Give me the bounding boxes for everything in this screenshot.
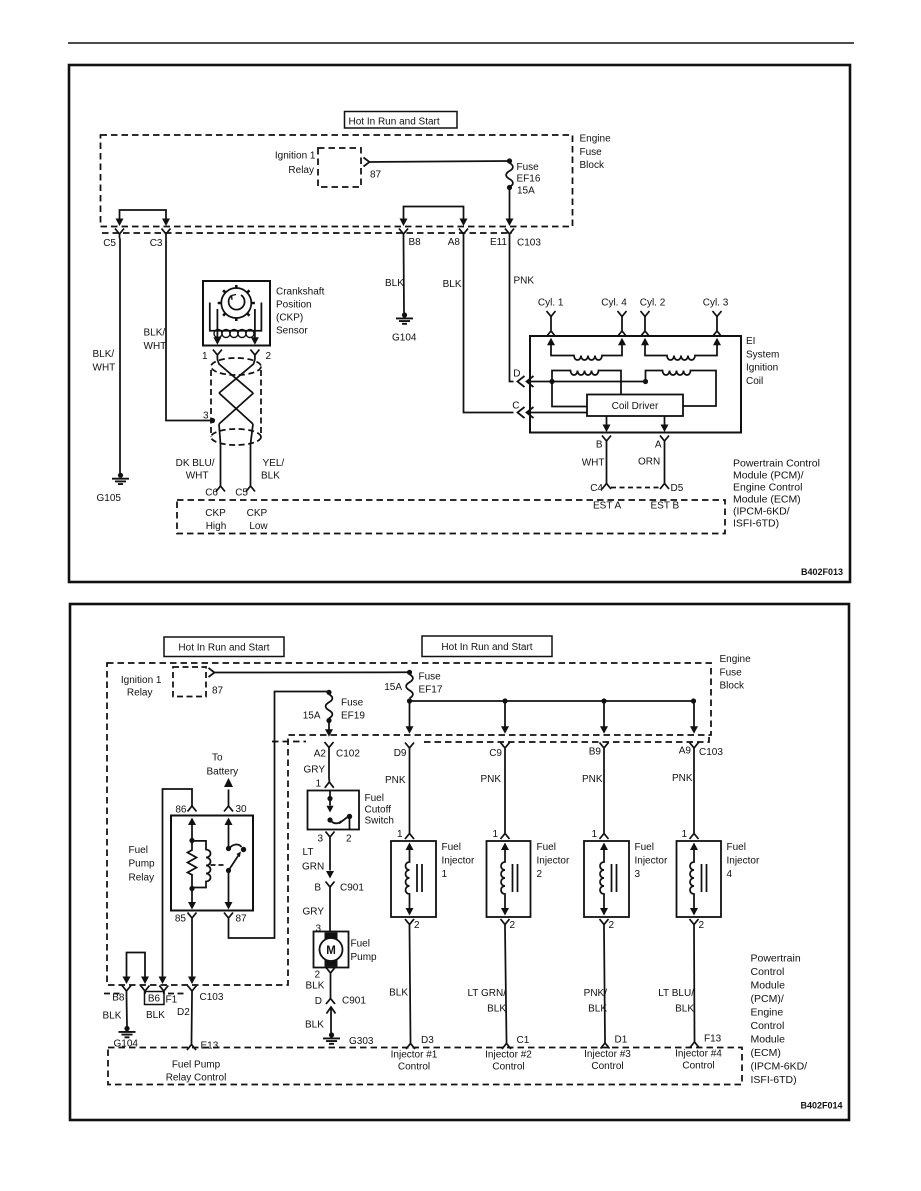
terminal D1 [601, 1040, 610, 1049]
spark tower Cyl 1 [547, 311, 556, 337]
wire pump to D C901 (BLK) [330, 977, 332, 995]
svg-text:PNK: PNK [582, 774, 603, 785]
svg-text:86: 86 [175, 805, 187, 816]
spark tower Cyl 4 [618, 311, 627, 337]
drop to A9 [693, 701, 695, 727]
svg-text:BLK: BLK [305, 1020, 324, 1031]
svg-text:Relay: Relay [127, 688, 153, 699]
svg-text:LT: LT [303, 847, 314, 858]
injector 2 pin 2 [501, 919, 510, 929]
svg-text:C3: C3 [150, 238, 163, 249]
terminal B8 [399, 229, 408, 239]
svg-text:Relay: Relay [129, 873, 155, 884]
terminal C103/D2 [188, 986, 197, 996]
svg-text:87: 87 [370, 170, 382, 181]
svg-text:LT BLU/: LT BLU/ [658, 988, 694, 999]
svg-text:A9: A9 [679, 746, 692, 757]
CKP pin 2 [250, 350, 259, 360]
svg-text:E11: E11 [490, 237, 507, 248]
coil driver output B [606, 416, 608, 426]
svg-text:2: 2 [699, 920, 705, 931]
svg-text:2: 2 [510, 920, 516, 931]
wire injector 3 to D1 (PNK/BLK) [604, 929, 605, 1040]
svg-text:C103: C103 [699, 747, 723, 758]
terminal C1 [502, 1040, 511, 1049]
svg-text:2: 2 [537, 869, 543, 880]
wire to E13 [191, 996, 194, 1042]
svg-text:C6: C6 [205, 488, 218, 499]
label box: Hot In Run and Start (left) [164, 637, 284, 657]
coil driver output A [664, 416, 666, 426]
fuel pump [314, 932, 349, 968]
wire to C6 (DK BLU/WHT) [220, 444, 222, 484]
svg-text:1: 1 [442, 869, 448, 880]
wire B9 to injector 3 (PNK) [603, 753, 605, 831]
svg-text:Module (ECM): Module (ECM) [733, 494, 801, 506]
svg-text:C103: C103 [200, 992, 224, 1003]
svg-text:A: A [655, 440, 662, 451]
fuse EF16 [507, 158, 512, 163]
terminal D3 [406, 1040, 415, 1049]
svg-text:Control: Control [682, 1061, 714, 1072]
svg-text:Control: Control [398, 1062, 430, 1073]
fuel injector 3 [584, 841, 629, 917]
pin 87 chevron and wire to fuse EF17 [209, 668, 410, 677]
svg-text:D5: D5 [671, 483, 684, 494]
drop to B9 [603, 701, 605, 727]
svg-text:Powertrain: Powertrain [751, 953, 801, 965]
svg-text:PNK: PNK [385, 775, 406, 786]
wire B8 to G104 (BLK) [126, 996, 129, 1027]
fuel injector 2 [487, 841, 531, 917]
svg-text:WHT: WHT [186, 471, 209, 482]
CKP pickup bracket [210, 303, 262, 331]
svg-text:EF17: EF17 [419, 685, 443, 696]
svg-text:87: 87 [236, 914, 248, 925]
svg-text:EI: EI [746, 336, 755, 347]
primary winding right [646, 371, 717, 407]
To Battery arrow [228, 790, 230, 806]
twisted pair wires [217, 360, 255, 445]
svg-text:2: 2 [346, 834, 352, 845]
svg-text:PNK: PNK [514, 276, 535, 287]
svg-text:G104: G104 [392, 333, 417, 344]
svg-text:Battery: Battery [207, 767, 239, 778]
PCM connector box (diagram 2) [108, 1048, 742, 1085]
svg-text:Fuse: Fuse [419, 672, 442, 683]
CKP pin 1 [213, 350, 222, 360]
terminal D9 [405, 743, 414, 753]
wire to C5 (YEL/BLK) [250, 444, 252, 484]
wire cutoff to B C901 (LT GRN) [329, 841, 331, 871]
svg-text:High: High [206, 521, 227, 532]
svg-text:D1: D1 [615, 1035, 628, 1046]
svg-text:Hot In Run and Start: Hot In Run and Start [349, 117, 440, 128]
svg-text:Injector #4: Injector #4 [675, 1049, 722, 1060]
terminal A9 [690, 743, 699, 753]
svg-text:Fuel: Fuel [365, 793, 384, 804]
svg-text:15A: 15A [303, 711, 321, 722]
svg-text:3: 3 [316, 924, 322, 935]
svg-text:Block: Block [720, 681, 745, 692]
CKP reluctor wheel [218, 285, 255, 321]
svg-text:System: System [746, 349, 779, 360]
injector 3 pin 2 [600, 919, 609, 929]
wire: EF16 to E11 [509, 188, 511, 220]
svg-text:Fuse: Fuse [580, 147, 603, 158]
svg-text:Hot In Run and Start: Hot In Run and Start [178, 643, 269, 654]
wire A to D5 (ORN) [664, 446, 666, 481]
injector 4 pin 2 [690, 919, 699, 929]
svg-text:G105: G105 [97, 493, 122, 504]
relay: Ignition 1 Relay (diagram 2) [173, 667, 206, 697]
wire A8 to coil terminal C (BLK) [464, 239, 514, 413]
relay switch branch [211, 818, 247, 910]
svg-text:EF19: EF19 [341, 711, 365, 722]
svg-text:To: To [212, 753, 223, 764]
svg-text:EST A: EST A [593, 501, 621, 512]
svg-text:PNK/: PNK/ [584, 988, 608, 999]
svg-text:1: 1 [397, 829, 403, 840]
engine fuse block outline (diagram 1) [101, 135, 573, 227]
terminal C4 [602, 481, 611, 490]
svg-text:(IPCM-6KD/: (IPCM-6KD/ [751, 1061, 808, 1073]
internal bus C5-C3 [120, 210, 167, 219]
fuel injector 1 [391, 841, 436, 917]
svg-text:C5: C5 [235, 488, 248, 499]
top rule [68, 42, 854, 44]
terminal F1 [159, 986, 168, 995]
svg-text:Coil Driver: Coil Driver [612, 401, 659, 412]
svg-text:(PCM)/: (PCM)/ [751, 993, 784, 1005]
svg-text:BLK: BLK [487, 1004, 506, 1015]
svg-text:Cyl. 4: Cyl. 4 [601, 298, 627, 309]
coil driver box [587, 395, 683, 417]
svg-text:WHT: WHT [144, 341, 167, 352]
label box: Hot In Run and Start (right) [422, 636, 552, 657]
wire: D dot to coil driver [552, 382, 587, 407]
connector row C103 (diagram 2) [424, 736, 709, 742]
terminal E11 [505, 229, 514, 239]
svg-text:BLK: BLK [306, 981, 325, 992]
svg-text:15A: 15A [517, 186, 535, 197]
svg-text:Injector: Injector [537, 856, 570, 867]
internal bus B8-A8 [404, 207, 464, 220]
svg-text:LT GRN/: LT GRN/ [467, 988, 506, 999]
injector 2 pin 1 [501, 831, 510, 840]
svg-text:Hot In Run and Start: Hot In Run and Start [441, 642, 532, 653]
svg-text:15A: 15A [384, 682, 402, 693]
svg-text:CKP: CKP [247, 508, 268, 519]
svg-text:A2: A2 [314, 749, 327, 760]
injector 4 pin 1 [690, 831, 699, 840]
svg-text:B9: B9 [589, 747, 602, 758]
terminal B6 [141, 986, 150, 995]
label box: Hot In Run and Start (diagram 1) [345, 112, 458, 129]
svg-text:Cutoff: Cutoff [365, 804, 392, 815]
secondary winding Cyl 2-3 [645, 345, 717, 361]
ground G303 [323, 1032, 340, 1043]
frame: diagram 2 border [70, 604, 849, 1120]
svg-text:D: D [513, 369, 520, 380]
svg-text:3: 3 [317, 834, 323, 845]
svg-text:1: 1 [202, 351, 208, 362]
fuel pump pin 2 terminal [326, 968, 335, 978]
ground G105 [112, 473, 129, 484]
svg-text:C4: C4 [590, 483, 603, 494]
svg-text:B8: B8 [112, 993, 125, 1004]
svg-text:Fuel: Fuel [351, 939, 370, 950]
PCM connector box (diagram 1) [177, 500, 725, 534]
ground wire G303 (BLK) [327, 1007, 336, 1034]
svg-text:Block: Block [580, 160, 605, 171]
svg-text:2: 2 [414, 920, 420, 931]
injector feed bus [410, 700, 695, 702]
svg-text:Relay Control: Relay Control [166, 1073, 227, 1084]
node: pin 3 junction [210, 418, 215, 423]
svg-text:Injector: Injector [442, 856, 475, 867]
svg-text:M: M [326, 945, 336, 957]
wire D9 to injector 1 (PNK) [409, 753, 411, 831]
spark tower Cyl 2 [641, 311, 650, 337]
svg-text:D3: D3 [421, 1035, 434, 1046]
svg-text:Control: Control [751, 1020, 785, 1032]
svg-text:D2: D2 [177, 1007, 190, 1018]
twisted pair shield [211, 358, 261, 445]
svg-text:WHT: WHT [93, 363, 116, 374]
svg-text:B: B [314, 883, 321, 894]
svg-text:Fuel Pump: Fuel Pump [172, 1060, 221, 1071]
svg-text:Fuel: Fuel [442, 842, 461, 853]
connector row C103 (diagram 1) [102, 232, 512, 234]
drop to D9 [409, 701, 411, 727]
wire C3 to CKP pin 3 (BLK/WHT) [166, 239, 211, 421]
svg-text:Sensor: Sensor [276, 326, 308, 337]
wire relay 85 down to C103 [191, 922, 193, 978]
pin 87 chevron and wire to fuse EF16 [364, 158, 510, 167]
svg-text:Module: Module [751, 1034, 786, 1046]
svg-text:Engine: Engine [580, 134, 612, 145]
svg-text:B8: B8 [409, 237, 422, 248]
drop to C9 [504, 701, 506, 727]
wire injector 2 to C1 (LT GRN/BLK) [505, 929, 507, 1041]
svg-text:BLK: BLK [675, 1004, 694, 1015]
fuel cutoff switch [308, 791, 360, 830]
connector row C102 dash [272, 741, 306, 743]
terminal B C901 [326, 882, 335, 892]
DIAGRAM 1 [101, 112, 573, 485]
engine fuse block outline (diagram 2) [107, 663, 711, 985]
svg-text:Fuse: Fuse [720, 667, 743, 678]
svg-text:Module (PCM)/: Module (PCM)/ [733, 470, 804, 482]
svg-text:Ignition: Ignition [746, 363, 778, 374]
terminal F13 [690, 1039, 699, 1048]
svg-text:1: 1 [492, 829, 498, 840]
svg-text:1: 1 [681, 829, 687, 840]
wire EF19 to A2 [328, 721, 330, 730]
svg-text:(IPCM-6KD/: (IPCM-6KD/ [733, 506, 790, 518]
dashed link C4-D5 [611, 487, 660, 489]
svg-text:BLK: BLK [146, 1010, 165, 1021]
svg-text:E13: E13 [201, 1041, 219, 1052]
svg-text:B6: B6 [148, 994, 161, 1005]
svg-text:Fuse: Fuse [341, 698, 364, 709]
injector 1 pin 2 [405, 919, 414, 929]
svg-text:Powertrain Control: Powertrain Control [733, 458, 820, 470]
svg-text:B402F014: B402F014 [800, 1101, 842, 1111]
ground G104 (diagram 2) [119, 1026, 136, 1037]
svg-text:A8: A8 [448, 237, 461, 248]
secondary winding Cyl 1-4 [551, 345, 622, 361]
wire E11 to coil terminal D (PNK) [510, 239, 514, 382]
svg-text:GRY: GRY [303, 907, 325, 918]
terminal A8 [459, 229, 468, 239]
svg-text:Ignition 1: Ignition 1 [121, 675, 162, 686]
relay pin 87 terminal [224, 913, 233, 922]
svg-text:B402F013: B402F013 [801, 567, 843, 577]
svg-text:87: 87 [212, 686, 224, 697]
svg-text:C: C [512, 401, 519, 412]
terminal C6 [216, 484, 225, 492]
svg-text:C103: C103 [517, 238, 541, 249]
wire C5 to G105 (BLK/WHT) [119, 239, 121, 474]
wire F1 to relay pin 86 [163, 789, 193, 977]
svg-text:Fuel: Fuel [635, 842, 654, 853]
svg-text:C5: C5 [103, 238, 116, 249]
relay pin 85 terminal [188, 913, 197, 922]
svg-text:Control: Control [492, 1062, 524, 1073]
wire B to C4 (WHT) [606, 446, 608, 481]
svg-text:Fuel: Fuel [537, 842, 556, 853]
svg-text:Injector #1: Injector #1 [391, 1050, 438, 1061]
relay pin 30 terminal [224, 806, 233, 812]
fuse EF17 [407, 670, 412, 675]
svg-text:Fuel: Fuel [727, 842, 746, 853]
svg-text:85: 85 [175, 914, 187, 925]
svg-text:Position: Position [276, 300, 312, 311]
svg-text:Fuse: Fuse [517, 162, 540, 173]
svg-text:Injector: Injector [727, 856, 760, 867]
svg-text:Cyl. 1: Cyl. 1 [538, 298, 564, 309]
svg-text:Pump: Pump [351, 952, 378, 963]
terminal B8 (diagram 2) [122, 986, 131, 996]
fuse EF19 [326, 690, 331, 695]
svg-text:Coil: Coil [746, 376, 763, 387]
primary winding left [552, 371, 621, 395]
svg-text:2: 2 [315, 970, 321, 981]
fuel pump relay box [171, 816, 253, 911]
svg-text:C901: C901 [342, 996, 366, 1007]
terminal C5 [115, 229, 124, 239]
svg-text:3: 3 [635, 869, 641, 880]
svg-text:Injector: Injector [635, 856, 668, 867]
wire injector 4 to F13 (LT BLU/BLK) [693, 929, 696, 1039]
svg-text:G104: G104 [114, 1039, 139, 1050]
svg-text:C9: C9 [489, 748, 502, 759]
svg-text:Pump: Pump [129, 859, 156, 870]
terminal A [660, 436, 669, 446]
svg-text:Ignition 1: Ignition 1 [275, 151, 316, 162]
injector 1 pin 1 [405, 831, 414, 840]
cutoff switch pin 3 [326, 832, 335, 842]
connector row dashes (C103 lower) [104, 993, 186, 995]
terminal D5 [660, 481, 669, 490]
svg-text:B: B [596, 440, 603, 451]
svg-text:BLK: BLK [385, 278, 404, 289]
wire 87 output to fuse EF19 [229, 692, 330, 939]
svg-text:Module: Module [751, 980, 786, 992]
relay: Ignition 1 Relay (diagram 1) [318, 148, 361, 187]
svg-text:Engine Control: Engine Control [733, 482, 802, 494]
ground G104 [396, 312, 413, 323]
svg-text:Injector #2: Injector #2 [485, 1050, 532, 1061]
svg-text:BLK/: BLK/ [93, 349, 115, 360]
svg-text:Cyl. 2: Cyl. 2 [640, 298, 666, 309]
wire B8 to G104 (BLK) [403, 239, 406, 313]
svg-text:C901: C901 [340, 883, 364, 894]
svg-text:F1: F1 [166, 995, 178, 1006]
cutoff switch pin 1 [325, 780, 334, 788]
svg-text:Control: Control [591, 1061, 623, 1072]
svg-text:(ECM): (ECM) [751, 1047, 781, 1059]
CKP output arrows [216, 309, 218, 338]
terminal B9 [600, 743, 609, 753]
svg-text:ISFI-6TD): ISFI-6TD) [751, 1074, 797, 1086]
relay pin 86 terminal [188, 806, 197, 812]
svg-text:D: D [315, 996, 322, 1007]
svg-text:DK BLU/: DK BLU/ [176, 458, 215, 469]
svg-text:F13: F13 [704, 1034, 722, 1045]
wire injector 1 to D3 (BLK) [410, 929, 411, 1041]
svg-text:G303: G303 [349, 1036, 374, 1047]
svg-text:BLK: BLK [443, 279, 462, 290]
svg-text:C102: C102 [336, 749, 360, 760]
svg-text:PNK: PNK [480, 774, 501, 785]
svg-text:3: 3 [203, 411, 209, 422]
svg-text:Injector #3: Injector #3 [584, 1049, 631, 1060]
svg-text:EST B: EST B [651, 501, 680, 512]
svg-text:BLK/: BLK/ [144, 328, 166, 339]
svg-text:Low: Low [249, 521, 268, 532]
terminal C9 [501, 743, 510, 753]
terminal C5 (CKP low) [246, 484, 255, 492]
terminal A2 [325, 742, 334, 752]
svg-text:(CKP): (CKP) [276, 313, 303, 324]
svg-text:GRN: GRN [302, 862, 324, 873]
svg-text:BLK: BLK [261, 471, 280, 482]
terminal D chevrons and wire [518, 376, 646, 387]
svg-text:1: 1 [316, 779, 322, 790]
svg-text:Engine: Engine [720, 654, 752, 665]
svg-text:C1: C1 [517, 1035, 530, 1046]
wire C9 to injector 2 (PNK) [504, 753, 506, 831]
B6 label box [145, 992, 165, 1005]
DIAGRAM 2 [70, 604, 849, 1120]
terminal B [602, 436, 611, 446]
svg-text:WHT: WHT [582, 458, 605, 469]
svg-text:YEL/: YEL/ [263, 458, 285, 469]
terminal D C901 [326, 995, 335, 1004]
svg-text:Switch: Switch [365, 816, 394, 827]
svg-text:BLK: BLK [103, 1011, 122, 1022]
svg-text:D9: D9 [394, 748, 407, 759]
svg-text:2: 2 [609, 920, 615, 931]
wire B to fuel pump (GRY) [329, 892, 331, 932]
terminal E13 [187, 1042, 196, 1051]
svg-text:30: 30 [236, 804, 248, 815]
svg-text:Cyl. 3: Cyl. 3 [703, 298, 729, 309]
spark tower Cyl 3 [713, 311, 722, 337]
